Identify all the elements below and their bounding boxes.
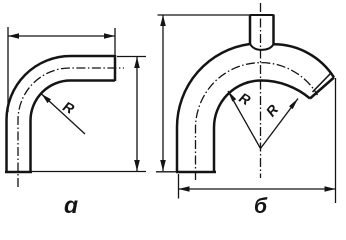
- branch stub saddle weld curve: [250, 44, 274, 50]
- pipe b end face (45 deg cut): [310, 78, 334, 99]
- pipe b inner outline: [214, 81, 310, 173]
- pipe b outer outline right part: [274, 44, 335, 77]
- extension line top (to stub): [158, 14, 275, 16]
- pipe a end cap: [114, 55, 117, 81]
- extension line bottom: [156, 171, 176, 173]
- radius leader R left of bend b: [228, 91, 261, 149]
- pipe bend a: outer outline: [5, 55, 115, 172]
- svg-text:б: б: [254, 195, 268, 218]
- extension line left: [178, 174, 180, 199]
- pipe bend b: outer outline left part: [176, 15, 334, 172]
- dimension: height of bend a (right): [32, 57, 146, 172]
- extension line left: [7, 27, 9, 112]
- radius arrowhead b-right: [289, 99, 298, 110]
- branch stub left edge: [249, 15, 252, 44]
- dimension line: [136, 57, 138, 171]
- extension line right: [114, 28, 116, 56]
- dimension: width of bend a (top): [8, 27, 115, 112]
- extension line bottom: [32, 171, 146, 173]
- branch stub top edge: [250, 14, 274, 16]
- arrow down b: [160, 160, 166, 171]
- arrow up: [134, 57, 140, 68]
- arrow left b: [179, 186, 190, 192]
- branch stub right edge: [272, 15, 275, 44]
- dimension line: [8, 35, 115, 37]
- radius arrowhead a: [42, 94, 52, 103]
- pipe a inner outline: [31, 81, 116, 173]
- pipe b bottom cap: [176, 171, 216, 174]
- radius leader R right of bend b: [261, 99, 299, 149]
- radius leader R of bend a: [42, 94, 86, 134]
- dimension: height of bend b (left): [156, 15, 275, 172]
- left leg centerline of bend b with centerline arc: [196, 63, 318, 180]
- arrow down: [134, 160, 140, 171]
- arrow up b: [160, 15, 166, 26]
- svg-text:ɑ: ɑ: [64, 192, 78, 218]
- extension line top: [117, 56, 146, 58]
- arrow right: [104, 33, 115, 39]
- radius arrowhead b-left: [228, 91, 236, 102]
- svg-text:R: R: [237, 89, 255, 108]
- dimension line: [179, 188, 336, 190]
- pipe b end face overdraw stroke: [313, 74, 331, 93]
- main vertical centerline of bend b: [260, 3, 262, 178]
- arrow left: [8, 33, 19, 39]
- svg-text:R: R: [263, 101, 282, 120]
- pipe a bottom cap: [5, 171, 32, 174]
- dimension: width of bend b (bottom): [179, 78, 336, 203]
- centerline of pipe a (dash-dot): [18, 68, 124, 187]
- dimension line: [162, 15, 164, 171]
- extension line right: [335, 78, 337, 203]
- arrow right b: [325, 186, 336, 192]
